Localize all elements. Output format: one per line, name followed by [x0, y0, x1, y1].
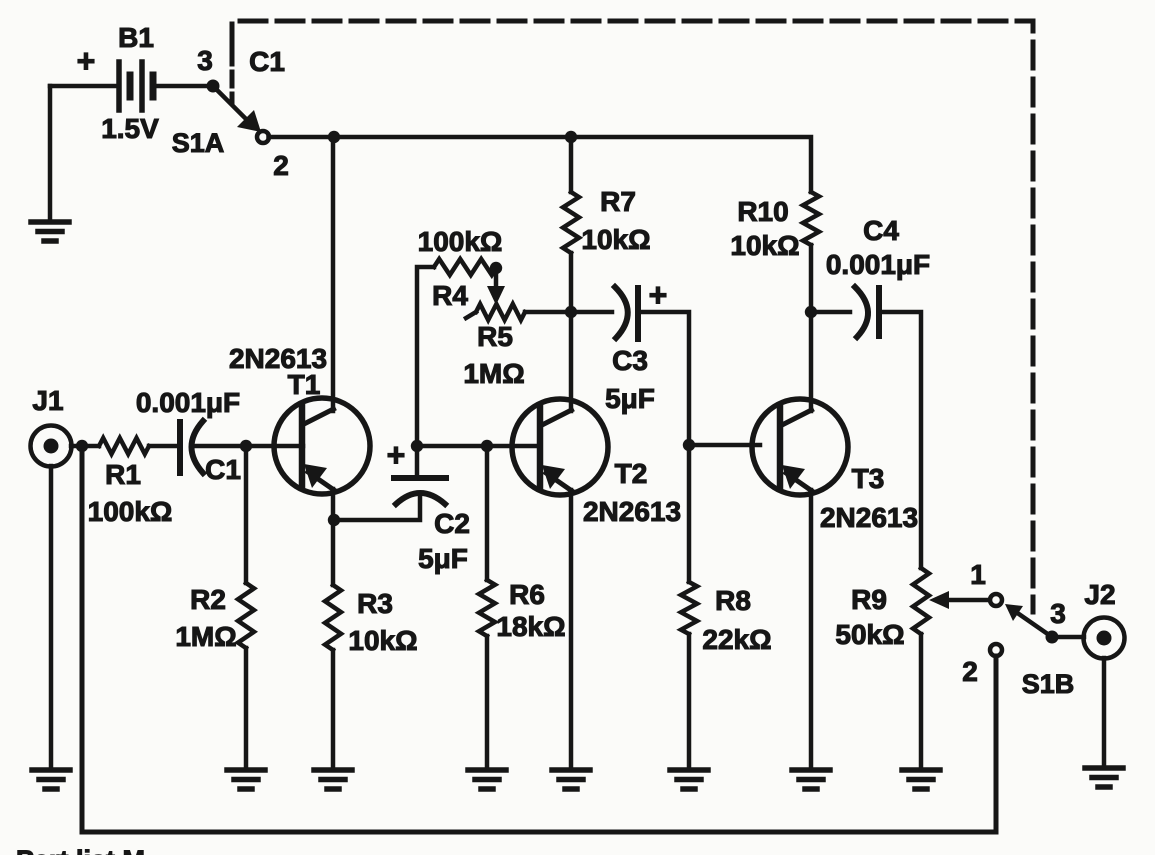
label R5: [477, 321, 513, 352]
label R10: [737, 196, 788, 227]
svg-text:2N2613: 2N2613: [820, 502, 918, 533]
svg-text:B1: B1: [118, 22, 154, 53]
wire T3 collector: [809, 312, 814, 411]
jack J1: [31, 426, 72, 467]
wire R10 node to C4: [811, 310, 850, 315]
wire T1 collector to rail: [331, 137, 336, 411]
wire S1B pole to J2: [1058, 635, 1084, 640]
wire R5 to C3: [525, 310, 612, 315]
svg-text:R1: R1: [105, 459, 141, 490]
switch S1B contact 1: [990, 594, 1002, 606]
svg-text:R6: R6: [509, 579, 545, 610]
label T2 type 2N2613: [583, 496, 681, 527]
label + battery polarity: [77, 43, 96, 79]
caption partial Parts list: [16, 845, 145, 855]
svg-text:1MΩ: 1MΩ: [463, 358, 524, 389]
label C1 value 0.001uF: [136, 387, 240, 418]
label C1: [205, 454, 241, 485]
ground battery: [31, 222, 69, 241]
svg-text:1: 1: [970, 559, 986, 590]
svg-text:C4: C4: [863, 215, 899, 246]
svg-text:R8: R8: [715, 585, 751, 616]
wire bottom return S1B-2 to J1 node: [82, 446, 996, 832]
label R1: [105, 459, 141, 490]
switch S1B arm: [1005, 604, 1052, 637]
label R8: [715, 585, 751, 616]
wire dashed mechanical-link S1A to S1B: [232, 21, 1033, 612]
label T1 type 2N2613: [229, 343, 327, 374]
label T1: [288, 369, 321, 400]
wire T2 collector: [569, 312, 574, 411]
svg-text:T1: T1: [288, 369, 321, 400]
svg-text:R9: R9: [851, 584, 887, 615]
label T2: [615, 458, 648, 489]
transistor T2: [512, 399, 608, 495]
label R5 value 1M: [463, 358, 524, 389]
ground T2 emitter: [552, 770, 590, 789]
ground R9: [902, 770, 940, 789]
ground J2: [1085, 768, 1123, 787]
label R4 value 100k: [418, 226, 503, 257]
wire R4 left lead down to base node: [417, 267, 434, 446]
ground J1: [32, 770, 70, 789]
wire T2 emitter to ground: [569, 490, 574, 770]
label B1: [118, 22, 154, 53]
node junction R4 C2 base: [411, 440, 423, 452]
svg-text:18kΩ: 18kΩ: [496, 611, 565, 642]
label C4: [863, 215, 899, 246]
node junction R5 R7 C3 T2-collector: [565, 306, 577, 318]
label + C3 polarity: [649, 277, 668, 313]
label R9: [851, 584, 887, 615]
svg-text:100kΩ: 100kΩ: [418, 226, 503, 257]
label R3: [357, 588, 393, 619]
wire base node down to C2: [415, 446, 420, 476]
svg-text:R4: R4: [432, 280, 468, 311]
wiper arrow R5: [487, 268, 505, 305]
label R10 value 10k: [730, 230, 799, 261]
potentiometer R5: [466, 304, 525, 320]
label C3 value 5uF: [605, 383, 655, 414]
wire J2 sleeve to ground: [1102, 658, 1107, 768]
capacitor C1: [180, 421, 203, 473]
switch S1A pole 3 contact: [207, 80, 220, 93]
node junction J1 feedback: [76, 440, 88, 452]
wire T3 emitter to ground: [809, 490, 814, 770]
wire J1 sleeve to ground: [49, 466, 54, 770]
svg-text:J1: J1: [32, 385, 63, 416]
label C2 value 5uF: [418, 543, 468, 574]
label S1B: [1022, 669, 1075, 699]
svg-text:S1A: S1A: [172, 128, 225, 158]
resistor R3: [325, 585, 341, 770]
svg-text:5μF: 5μF: [418, 543, 468, 574]
svg-text:1.5V: 1.5V: [101, 113, 159, 144]
svg-text:T3: T3: [852, 463, 885, 494]
node junction rail T1: [328, 131, 340, 143]
resistor R6: [479, 446, 495, 770]
wire battery positive lead: [50, 84, 117, 89]
svg-text:10kΩ: 10kΩ: [581, 224, 650, 255]
node junction T1 emitter C2: [328, 514, 340, 526]
label 2 S1A: [273, 150, 289, 181]
label 3 S1A: [197, 45, 213, 76]
wire battery to switch S1A: [153, 84, 213, 89]
svg-text:+: +: [649, 277, 668, 313]
wire R1 to C1: [149, 444, 178, 449]
jack J2: [1084, 618, 1125, 659]
node junction T2 base R6: [481, 440, 493, 452]
wire top supply rail: [269, 137, 812, 192]
label 1 S1B: [970, 559, 986, 590]
label R2: [190, 584, 226, 615]
label R2 value 1M: [175, 621, 236, 652]
resistor R10: [803, 192, 819, 312]
svg-text:C3: C3: [612, 345, 648, 376]
switch S1B pole 3 contact: [1046, 631, 1059, 644]
label R7 value 10k: [581, 224, 650, 255]
node junction R4 wiper: [490, 262, 502, 274]
label R7: [600, 186, 636, 217]
capacitor C3: [615, 287, 638, 339]
label R1 value 100k: [88, 496, 173, 527]
svg-text:R10: R10: [737, 196, 788, 227]
wire T2 base: [417, 444, 540, 449]
svg-text:R3: R3: [357, 588, 393, 619]
svg-text:2N2613: 2N2613: [583, 496, 681, 527]
ground R3: [314, 770, 352, 789]
label C1 top: [249, 46, 285, 77]
wire J1 to R1: [71, 444, 99, 449]
ground R8: [670, 770, 708, 789]
svg-text:S1B: S1B: [1022, 669, 1075, 699]
svg-text:Part list M: Part list M: [16, 845, 145, 855]
label T3: [852, 463, 885, 494]
label R6: [509, 579, 545, 610]
svg-text:R5: R5: [477, 321, 513, 352]
transistor T3: [752, 399, 848, 495]
node junction base T1 R2: [240, 440, 252, 452]
wire C2 to T1 emitter node: [334, 495, 420, 520]
label J1: [32, 385, 63, 416]
resistor R8: [681, 445, 697, 770]
svg-text:+: +: [77, 43, 96, 79]
label + C2 polarity: [387, 437, 406, 473]
capacitor C4: [855, 287, 879, 337]
label R8 value 22k: [702, 624, 771, 655]
svg-text:C1: C1: [205, 454, 241, 485]
capacitor C2: [394, 478, 446, 504]
transistor T1: [274, 398, 370, 494]
label R6 value 18k: [496, 611, 565, 642]
ground R2: [227, 770, 265, 789]
label C3: [612, 345, 648, 376]
svg-text:22kΩ: 22kΩ: [702, 624, 771, 655]
svg-text:0.001μF: 0.001μF: [826, 249, 930, 280]
svg-text:1MΩ: 1MΩ: [175, 621, 236, 652]
ground T3 emitter: [792, 770, 830, 789]
switch S1A arm: [213, 86, 261, 132]
resistor R2: [238, 446, 254, 770]
node junction R10 C4 T3-collector: [805, 306, 817, 318]
label J2: [1084, 579, 1115, 610]
svg-text:5μF: 5μF: [605, 383, 655, 414]
svg-text:T2: T2: [615, 458, 648, 489]
svg-text:2: 2: [273, 150, 289, 181]
switch S1B contact 2: [990, 644, 1002, 656]
potentiometer R9: [913, 568, 929, 770]
svg-text:10kΩ: 10kΩ: [348, 625, 417, 656]
svg-text:100kΩ: 100kΩ: [88, 496, 173, 527]
resistor R1: [99, 438, 149, 454]
label 1.5V: [101, 113, 159, 144]
switch S1A throw 2 contact: [257, 131, 269, 143]
svg-text:3: 3: [1050, 598, 1066, 629]
svg-text:J2: J2: [1084, 579, 1115, 610]
label R4: [432, 280, 468, 311]
svg-text:C2: C2: [434, 508, 470, 539]
wire C1 to T1 base: [195, 444, 303, 449]
node junction rail R7: [565, 131, 577, 143]
node junction C3 R8 T3-base: [683, 439, 695, 451]
svg-text:10kΩ: 10kΩ: [730, 230, 799, 261]
wire battery ground lead: [48, 86, 53, 222]
wire dashed mechanical-link S1A stub: [230, 50, 235, 103]
label R3 value 10k: [348, 625, 417, 656]
label S1A: [172, 128, 225, 158]
svg-text:2: 2: [962, 656, 978, 687]
svg-text:R7: R7: [600, 186, 636, 217]
wire C3 to T3 base: [638, 312, 760, 445]
label 2 S1B: [962, 656, 978, 687]
svg-text:C1: C1: [249, 46, 285, 77]
label R9 value 50k: [835, 619, 904, 650]
label C2: [434, 508, 470, 539]
svg-text:0.001μF: 0.001μF: [136, 387, 240, 418]
wire C4 to R9: [879, 312, 921, 568]
svg-text:+: +: [387, 437, 406, 473]
wire T1 emitter down: [331, 489, 336, 585]
svg-text:50kΩ: 50kΩ: [835, 619, 904, 650]
resistor R4: [434, 259, 497, 275]
label C4 value 0.001uF: [826, 249, 930, 280]
label T3 type 2N2613: [820, 502, 918, 533]
resistor R7: [563, 137, 579, 312]
label 3 S1B: [1050, 598, 1066, 629]
svg-text:3: 3: [197, 45, 213, 76]
wiper arrow R9: [929, 591, 991, 609]
battery B1: [119, 62, 153, 110]
svg-text:R2: R2: [190, 584, 226, 615]
ground R6: [468, 770, 506, 789]
